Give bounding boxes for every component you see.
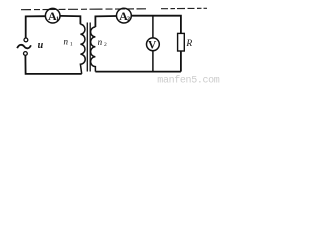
- svg-text:u: u: [38, 40, 44, 51]
- wire: lower terminal down and bottom run to coil: [25, 55, 81, 74]
- svg-text:manfen5.com: manfen5.com: [157, 74, 220, 85]
- terminal (lower) of AC source: [24, 52, 28, 56]
- secondary coil n2 (4 turns): [91, 27, 96, 72]
- transformer core: [86, 23, 88, 72]
- voltmeter V: [147, 38, 160, 51]
- dashed separator line (top, right part): [161, 7, 207, 9]
- resistor R: [178, 33, 185, 51]
- wire: voltmeter branch from top wire: [152, 16, 154, 38]
- terminal (upper) of AC source: [24, 38, 28, 42]
- svg-text:R: R: [185, 39, 192, 49]
- wire: primary top-left corner and top run to A1: [26, 16, 46, 38]
- svg-text:n: n: [98, 37, 103, 47]
- svg-text:n: n: [64, 37, 69, 47]
- wire: secondary bottom run: [95, 71, 180, 73]
- wire: A1 to primary coil top lead: [60, 16, 80, 24]
- svg-text:1: 1: [56, 17, 59, 23]
- svg-text:1: 1: [70, 42, 73, 48]
- ammeter A1: [45, 8, 60, 23]
- svg-text:2: 2: [104, 42, 107, 48]
- wire: resistor bottom lead: [180, 51, 182, 72]
- dashed separator line (top, left part): [21, 8, 146, 11]
- svg-text:2: 2: [127, 17, 130, 23]
- primary coil n1 (4 turns): [80, 24, 85, 74]
- wire: secondary coil top lead to A2: [95, 16, 116, 27]
- wire: A2 to resistor top corner: [131, 16, 181, 34]
- ammeter A2: [117, 8, 132, 23]
- AC sine symbol: [17, 45, 31, 49]
- wire: voltmeter to bottom wire: [152, 51, 154, 72]
- svg-text:V: V: [148, 40, 157, 52]
